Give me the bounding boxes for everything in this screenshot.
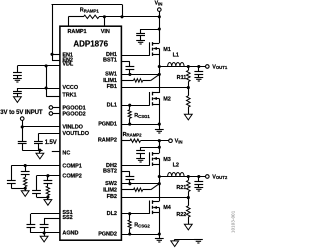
wire ground tie left stub bbox=[174, 239, 176, 241]
IC U1 ADP1876 controller body and part number bbox=[60, 26, 122, 240]
wire R11 top stub bbox=[188, 67, 190, 71]
svg-text:VOUT1: VOUT1 bbox=[212, 64, 228, 70]
wire cap C1 stub bbox=[140, 29, 142, 33]
wire ILIM1 diagonal to SW1 bbox=[151, 74, 160, 80]
svg-text:PGOOD2: PGOOD2 bbox=[62, 111, 85, 117]
wire SS2 from IC bbox=[44, 218, 60, 220]
resistor R22 bbox=[187, 206, 191, 217]
wire output cap 1 stub bbox=[198, 67, 200, 72]
ground power PGND1 bbox=[155, 129, 164, 131]
node COMP2 ground junction bbox=[46, 196, 49, 199]
svg-text:COMP2: COMP2 bbox=[62, 174, 81, 180]
node R21 top junction bbox=[187, 175, 190, 178]
svg-text:VDL: VDL bbox=[62, 62, 74, 68]
svg-text:AGND: AGND bbox=[62, 231, 78, 237]
wire RRAMP2 to VIN2 bbox=[141, 140, 169, 142]
wire C16 to AGND line bbox=[44, 227, 46, 233]
terminal VIN top bbox=[158, 8, 162, 12]
resistor RILIM2 bbox=[134, 188, 143, 191]
wire BST2 from IC bbox=[121, 171, 130, 173]
ground analog COMP1 bbox=[21, 191, 29, 197]
svg-text:COMP1: COMP1 bbox=[62, 163, 81, 169]
wire VDL from IC bbox=[17, 65, 59, 67]
wire to input cap C1 bbox=[141, 29, 160, 31]
wire cap C4 stub bbox=[140, 147, 142, 151]
wire R21 bottom stub bbox=[188, 192, 190, 198]
svg-text:10103-001: 10103-001 bbox=[231, 210, 236, 233]
wire C8 to ground bbox=[17, 94, 19, 97]
svg-text:RRAMP1: RRAMP1 bbox=[80, 8, 100, 14]
ground power C5 bbox=[194, 187, 203, 189]
resistor RILIM1 bbox=[134, 79, 143, 82]
svg-text:1.5V: 1.5V bbox=[45, 140, 57, 146]
svg-text:M2: M2 bbox=[163, 97, 171, 103]
node BST1 cap junction bbox=[128, 73, 131, 76]
wire COMP1 ground stub bbox=[25, 188, 27, 191]
capacitor C2 output 1 bbox=[194, 71, 203, 73]
wire FB1 from IC bbox=[121, 87, 188, 89]
svg-text:ILIM2: ILIM2 bbox=[103, 187, 117, 193]
wire BST2 cap to SW2 bbox=[129, 179, 131, 183]
svg-text:RAMP1: RAMP1 bbox=[67, 29, 86, 35]
node VIN pin junction bbox=[103, 15, 106, 18]
wire DL2 to M4 gate bbox=[121, 213, 150, 215]
svg-text:VIN: VIN bbox=[175, 139, 183, 145]
wire VIN terminal down bbox=[159, 11, 161, 43]
wire ILIM2 from IC bbox=[121, 189, 133, 191]
svg-text:L1: L1 bbox=[173, 52, 179, 58]
transistor M2 bbox=[149, 92, 151, 105]
wire ground tie right stub bbox=[198, 238, 200, 241]
svg-text:ADP1876: ADP1876 bbox=[73, 39, 108, 48]
node AGND junction bbox=[43, 231, 46, 234]
wire TRK1 to IC bbox=[46, 96, 60, 98]
node BST2 cap junction bbox=[128, 182, 131, 185]
node FB2 junction bbox=[187, 196, 190, 199]
node FB1 junction bbox=[187, 86, 190, 89]
ground power C2 bbox=[194, 77, 203, 79]
wire SW2 from IC bbox=[121, 183, 159, 185]
wire cap C4 to ground bbox=[140, 153, 142, 158]
inductor L2 bbox=[168, 173, 184, 177]
transistor M4 bbox=[149, 201, 151, 214]
wire COMP2 bottom join bbox=[37, 197, 48, 199]
wire RCSG1 top stub bbox=[129, 105, 131, 110]
svg-text:SW2: SW2 bbox=[105, 181, 117, 187]
wire FB1 to R12 bbox=[188, 88, 190, 96]
capacitor C1 input bypass bbox=[136, 33, 145, 35]
wire PGND1 from IC bbox=[121, 124, 159, 126]
wire AGND ground stub bbox=[44, 233, 46, 236]
node PGND2 junction bbox=[158, 232, 161, 235]
svg-text:M4: M4 bbox=[163, 205, 172, 211]
node VIN rail junction bbox=[158, 15, 161, 18]
wire input terminal down bbox=[22, 120, 24, 127]
node RCSG2 PGND2 junction bbox=[128, 232, 131, 235]
wire RCOMP1 bottom bbox=[25, 187, 27, 189]
wire VDL cap stub bbox=[17, 66, 19, 73]
transistor M3 bbox=[149, 152, 151, 165]
wire VOUTLDO from IC bbox=[38, 133, 59, 135]
resistor R12 bbox=[187, 96, 191, 107]
wire output cap 2 stub bbox=[198, 177, 200, 182]
svg-text:SS2: SS2 bbox=[62, 215, 72, 221]
ground analog COMP2 bbox=[44, 200, 52, 206]
wire C12 to RCOMP1 bbox=[25, 174, 27, 177]
node VIN cap junction bbox=[158, 27, 161, 30]
node R11 top junction bbox=[187, 65, 190, 68]
capacitor C9 VINLDO bbox=[18, 141, 27, 143]
resistor RRAMP1 bbox=[84, 15, 100, 18]
node LDO bus junction bbox=[38, 149, 41, 152]
terminal 3V-5V input bbox=[20, 117, 24, 121]
wire ILIM1 from IC bbox=[121, 80, 133, 82]
wire C9 to bus bbox=[22, 144, 24, 151]
svg-text:FB1: FB1 bbox=[107, 84, 117, 90]
terminal PGOOD1 bbox=[49, 106, 53, 110]
svg-text:SW1: SW1 bbox=[105, 72, 117, 78]
node output cap 2 junction bbox=[197, 175, 200, 178]
capacitor C3 bootstrap 1 bbox=[126, 66, 135, 68]
wire FB2 to R22 bbox=[188, 198, 190, 206]
capacitor C11 COMP1 bbox=[7, 180, 16, 182]
wire RCOMP2 bottom bbox=[47, 195, 49, 197]
wire R21 top stub bbox=[188, 177, 190, 181]
wire BST2 cap stub bbox=[129, 172, 131, 177]
svg-text:RCSG2: RCSG2 bbox=[134, 223, 150, 229]
wire C14 to RCOMP2 bbox=[47, 183, 49, 186]
svg-text:BST1: BST1 bbox=[103, 58, 117, 64]
transistor M1 bbox=[149, 42, 151, 55]
wire EN rail top horizontal bbox=[52, 4, 123, 6]
wire output rail 1 bbox=[159, 66, 205, 68]
wire VIN2 rail down bbox=[159, 141, 161, 153]
svg-text:VIN: VIN bbox=[155, 1, 163, 7]
node output cap 1 junction bbox=[197, 65, 200, 68]
ground analog R12 bbox=[184, 114, 192, 120]
wire RCSG2 top stub bbox=[129, 214, 131, 220]
wire VINLDO to IC bbox=[22, 126, 60, 128]
svg-text:VINLDO: VINLDO bbox=[62, 125, 83, 131]
resistor RCSG2 bbox=[128, 220, 131, 229]
ground power PGND2 bbox=[155, 238, 164, 240]
svg-text:BST2: BST2 bbox=[103, 168, 117, 174]
wire VCCO cap stub bbox=[17, 88, 19, 91]
wire RCSG2 bottom stub bbox=[129, 229, 131, 234]
wire C13 bottom bbox=[36, 193, 38, 197]
wire output rail 2 bbox=[159, 176, 205, 178]
wire R12 to ground bbox=[188, 107, 190, 114]
ground analog tie bbox=[171, 241, 179, 247]
wire R22 to ground bbox=[188, 217, 190, 224]
capacitor C6 bootstrap 2 bbox=[126, 176, 135, 178]
wire NC stub bbox=[52, 151, 60, 153]
wire BST1 from IC bbox=[121, 61, 130, 63]
wire RAMP2 from IC bbox=[121, 140, 130, 142]
node VDL junction bbox=[45, 64, 48, 67]
wire C11 bottom bbox=[11, 183, 13, 188]
wire SS1 cap stub bbox=[30, 214, 32, 224]
ground power C7 bbox=[13, 78, 22, 80]
wire PGND2 ground stub bbox=[159, 234, 161, 239]
wire PGOOD1 to IC bbox=[53, 107, 60, 109]
svg-text:TRK1: TRK1 bbox=[62, 92, 76, 98]
svg-text:R21: R21 bbox=[176, 185, 186, 191]
capacitor C12 COMP1 series bbox=[21, 171, 30, 173]
ground analog LDO bbox=[36, 153, 44, 159]
wire M4 source to PGND2 bbox=[159, 213, 161, 234]
ground power C1 bbox=[136, 40, 145, 42]
node VINLDO junction bbox=[21, 125, 24, 128]
node COMP1 ground junction bbox=[24, 187, 27, 190]
wire RILIM2 to diagonal bbox=[143, 189, 151, 191]
capacitor C7 VDL bbox=[13, 72, 22, 74]
wire RILIM1 to diagonal bbox=[143, 80, 151, 82]
wire AGND to IC bbox=[31, 232, 60, 234]
node EN tie junction bbox=[120, 15, 123, 18]
wire PGND1 ground stub bbox=[159, 124, 161, 129]
svg-text:DL2: DL2 bbox=[107, 211, 117, 217]
wire C15 to AGND line bbox=[30, 227, 32, 233]
resistor R21 bbox=[187, 180, 191, 191]
node SW1 wire junction bbox=[158, 73, 161, 76]
wire EN2 to IC bbox=[52, 60, 60, 62]
resistor RRAMP2 bbox=[130, 139, 141, 142]
terminal PGOOD2 bbox=[49, 112, 53, 116]
wire BST1 cap stub bbox=[129, 62, 131, 67]
svg-text:RCSG1: RCSG1 bbox=[134, 113, 150, 119]
wire cap C2 to ground bbox=[198, 74, 200, 77]
wire DH2 to M3 gate bbox=[121, 165, 150, 167]
resistor RCSG1 bbox=[128, 110, 131, 119]
wire VCCO to TRK1 rail bbox=[46, 88, 48, 97]
wire SW1 from IC bbox=[121, 74, 159, 76]
wire to input cap C4 bbox=[141, 147, 160, 149]
wire ground tie bbox=[175, 239, 199, 241]
ground power tie bbox=[194, 239, 203, 241]
node EN1 junction bbox=[50, 53, 53, 56]
inductor L1 bbox=[168, 63, 184, 67]
wire BST1 cap to SW1 bbox=[129, 69, 131, 74]
wire FB2 from IC bbox=[121, 197, 188, 199]
wire SS1 from IC bbox=[31, 213, 60, 215]
svg-text:FB2: FB2 bbox=[107, 194, 117, 200]
svg-text:ILIM1: ILIM1 bbox=[103, 78, 117, 84]
wire COMP1 from IC bbox=[11, 165, 59, 167]
wire COMP2 ground stub bbox=[47, 197, 49, 200]
svg-text:R22: R22 bbox=[176, 212, 186, 218]
svg-text:3V to 5V INPUT: 3V to 5V INPUT bbox=[0, 110, 43, 116]
wire COMP2 from IC bbox=[37, 175, 60, 177]
wire cap C1 to ground bbox=[140, 36, 142, 40]
wire EN rail drop to VIN node bbox=[122, 4, 124, 16]
svg-text:R11: R11 bbox=[177, 75, 187, 81]
wire C7 to ground bbox=[17, 75, 19, 79]
wire DL1 to M2 gate bbox=[121, 105, 150, 107]
svg-text:VIN: VIN bbox=[101, 29, 110, 35]
wire M1 source to SW1 node bbox=[159, 54, 161, 93]
wire RAMP1 pin up bbox=[68, 17, 70, 26]
wire C10 to bus bbox=[38, 144, 40, 151]
resistor RCOMP1 bbox=[24, 177, 27, 186]
capacitor C13 COMP2 bbox=[32, 190, 41, 192]
node VIN2 junction bbox=[158, 139, 161, 142]
capacitor C16 SS2 bbox=[40, 224, 49, 226]
node PGND1 junction bbox=[158, 123, 161, 126]
wire VCCO from IC bbox=[17, 88, 59, 90]
wire M2 source to PGND1 bbox=[159, 104, 161, 124]
wire SS2 cap stub bbox=[44, 218, 46, 224]
wire ILIM2 diagonal to SW2 bbox=[151, 184, 160, 190]
ground analog AGND bbox=[40, 236, 48, 242]
svg-text:M1: M1 bbox=[163, 47, 171, 53]
wire bus ground stub bbox=[39, 150, 41, 153]
ground power C4 bbox=[136, 158, 145, 160]
capacitor C5 output 2 bbox=[194, 181, 203, 183]
capacitor C14 COMP2 series bbox=[44, 180, 53, 182]
svg-text:NC: NC bbox=[62, 150, 70, 156]
wire input cap stub bbox=[22, 127, 24, 141]
terminal VOUT1 bbox=[206, 65, 210, 69]
node SW1 inductor junction bbox=[158, 65, 161, 68]
node RCSG1 top junction bbox=[128, 104, 131, 107]
resistor R11 bbox=[187, 70, 191, 81]
wire COMP1 left branch down bbox=[11, 166, 13, 181]
wire resistor to VIN node bbox=[99, 16, 159, 18]
wire LDO ground bus bbox=[22, 150, 42, 152]
wire DH1 to M1 gate bbox=[121, 55, 150, 57]
wire COMP2 right branch stub bbox=[47, 176, 49, 181]
wire COMP1 right branch stub bbox=[25, 166, 27, 172]
node RCSG2 top junction bbox=[128, 212, 131, 215]
wire PGOOD2 to IC bbox=[53, 113, 60, 115]
node VIN2 cap junction bbox=[158, 146, 161, 149]
svg-text:RRAMP2: RRAMP2 bbox=[123, 132, 143, 138]
ground analog R22 bbox=[184, 224, 192, 230]
node SW2 wire junction bbox=[158, 182, 161, 185]
svg-text:L2: L2 bbox=[173, 162, 179, 168]
wire COMP1 bottom join bbox=[11, 188, 25, 190]
capacitor C15 SS1 bbox=[27, 224, 36, 226]
svg-text:M3: M3 bbox=[163, 157, 171, 163]
node RCSG1 PGND1 junction bbox=[128, 123, 131, 126]
wire COMP2 left branch down bbox=[36, 176, 38, 191]
wire RAMP1 to resistor bbox=[68, 16, 83, 18]
svg-text:DL1: DL1 bbox=[107, 103, 117, 109]
terminal VOUT2 bbox=[206, 175, 210, 179]
capacitor C10 VOUTLDO 1.5V bbox=[34, 141, 43, 143]
node COMP2 junction bbox=[46, 174, 49, 177]
wire EN1 to IC bbox=[52, 54, 60, 56]
ground analog C8 bbox=[14, 97, 22, 103]
wire VDL to VCCO rail bbox=[46, 66, 48, 88]
capacitor C8 VCCO bbox=[13, 91, 22, 93]
svg-text:VOUT2: VOUT2 bbox=[212, 174, 228, 180]
svg-text:VCCO: VCCO bbox=[62, 85, 78, 91]
wire M3 source to SW2 node bbox=[159, 164, 161, 201]
wire VIN pin drop bbox=[104, 17, 106, 26]
svg-text:VOUTLDO: VOUTLDO bbox=[62, 131, 89, 137]
node VCCO junction bbox=[45, 86, 48, 89]
wire EN rail vertical bbox=[52, 4, 54, 60]
svg-text:PGND2: PGND2 bbox=[98, 232, 117, 238]
wire PGND2 from IC bbox=[121, 234, 159, 236]
capacitor C4 input bypass 2 bbox=[136, 150, 145, 152]
wire VOUTLDO cap stub bbox=[38, 134, 40, 142]
resistor RCOMP2 bbox=[46, 186, 49, 195]
svg-text:RAMP2: RAMP2 bbox=[98, 138, 117, 144]
wire RCSG1 bottom stub bbox=[129, 118, 131, 124]
terminal VIN mid bbox=[169, 139, 173, 143]
wire cap C5 to ground bbox=[198, 184, 200, 187]
node COMP1 junction bbox=[24, 164, 27, 167]
svg-text:PGND1: PGND1 bbox=[98, 122, 117, 128]
node SW2 inductor junction bbox=[158, 175, 161, 178]
wire R11 bottom stub bbox=[188, 82, 190, 88]
